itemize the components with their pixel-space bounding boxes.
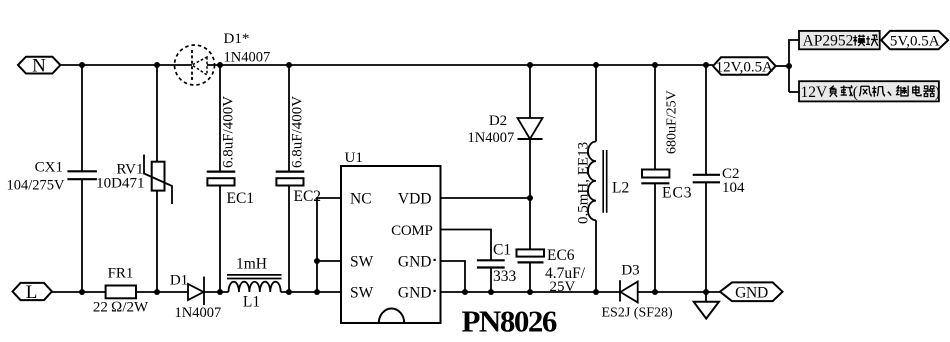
svg-text:1mH: 1mH <box>236 255 267 272</box>
svg-text:EC6: EC6 <box>547 247 575 264</box>
svg-text:EC3: EC3 <box>662 185 693 202</box>
svg-text:): ) <box>935 84 940 101</box>
svg-text:0.5mH, EE13: 0.5mH, EE13 <box>576 142 592 224</box>
junction at VDD/D2 node <box>527 195 533 201</box>
svg-text:L2: L2 <box>612 180 629 197</box>
capacitor EC1 <box>207 65 254 292</box>
wire bottom rail: L1 to chip U1 (SW pin) <box>281 291 341 293</box>
node GND <box>720 282 783 301</box>
load module AP2952 <box>799 31 880 50</box>
svg-text:C1: C1 <box>493 242 511 259</box>
wire bottom rail: L to FR1 <box>52 291 106 293</box>
diode D2 <box>468 65 543 198</box>
inductor L1 <box>227 255 282 310</box>
load box 12V (fan, relay) <box>799 81 940 101</box>
svg-text:FR1: FR1 <box>108 266 134 282</box>
wire 12V node to branch point <box>776 65 789 67</box>
svg-text:EC1: EC1 <box>227 190 255 207</box>
svg-text:25V: 25V <box>550 279 576 295</box>
svg-text:22 Ω/2W: 22 Ω/2W <box>93 300 149 316</box>
node 5V,0.5A <box>881 31 948 49</box>
svg-text:GND: GND <box>398 254 432 271</box>
junction on bottom rail at GND loop <box>462 289 468 295</box>
svg-text:D1: D1 <box>170 273 188 289</box>
junction on bottom rail at CX1 <box>79 289 85 295</box>
wire branch to AP2952 module <box>789 40 799 92</box>
svg-text:VDD: VDD <box>398 191 432 208</box>
junction on bottom rail at EC2/L1 <box>286 289 292 295</box>
varistor RV1 <box>96 65 172 292</box>
wire COMP pin to C1 <box>441 230 492 261</box>
svg-text:1N4007: 1N4007 <box>468 130 515 146</box>
svg-text:333: 333 <box>493 268 517 285</box>
svg-text:1N4007: 1N4007 <box>175 305 222 321</box>
junction on bottom rail at C1 <box>488 289 494 295</box>
svg-text:SW: SW <box>350 254 374 271</box>
diode D1 <box>170 273 221 322</box>
junction at SW pin loop <box>314 258 320 264</box>
capacitor EC2 <box>276 65 321 292</box>
wire top rail left (N to D1* cathode) <box>60 64 192 66</box>
capacitor CX1 <box>7 65 97 292</box>
junction on top rail at RV1 <box>154 62 160 68</box>
svg-text:680uF/25V: 680uF/25V <box>665 90 680 154</box>
junction on bottom rail at C2/ground <box>703 289 709 295</box>
svg-text:6.8uF/400V: 6.8uF/400V <box>290 96 306 168</box>
svg-text:104/275V: 104/275V <box>7 177 66 193</box>
diode D1* (dashed optional diode in circle) <box>175 31 271 85</box>
junction on bottom rail at NC loop <box>314 289 320 295</box>
svg-text:D2: D2 <box>489 113 507 129</box>
wire NC pin loop to bottom rail <box>317 198 341 292</box>
junction on bottom rail at L2 <box>593 289 599 295</box>
svg-text:U1: U1 <box>345 150 363 166</box>
junction at 12V branch <box>786 63 792 69</box>
junction on top rail at EC2 <box>286 62 292 68</box>
junction on top rail at CX1 <box>79 62 85 68</box>
svg-text:AP2952: AP2952 <box>803 33 854 50</box>
inductor L2 (EE13) <box>576 65 630 292</box>
junction on bottom rail at EC6 <box>527 289 533 295</box>
svg-text:L1: L1 <box>243 293 260 310</box>
ground <box>694 292 719 319</box>
svg-text:CX1: CX1 <box>35 159 63 175</box>
junction on top rail at C2 <box>703 62 709 68</box>
svg-text:(: ( <box>853 84 858 101</box>
svg-text:1N4007: 1N4007 <box>224 50 271 66</box>
svg-text:NC: NC <box>350 191 372 208</box>
svg-text:N: N <box>32 56 46 77</box>
node L <box>13 282 52 303</box>
svg-text:D1*: D1* <box>224 31 250 47</box>
wire bottom rail: D1 bar to L1 <box>204 291 229 293</box>
capacitor C1 <box>477 242 517 292</box>
svg-text:GND: GND <box>735 285 768 302</box>
junction on top rail at D2 <box>527 62 533 68</box>
junction on bottom rail at RV1 <box>154 289 160 295</box>
svg-text:D3: D3 <box>621 263 639 279</box>
resistor FR1 <box>93 266 149 316</box>
svg-text:5V,0.5A: 5V,0.5A <box>890 33 940 49</box>
svg-text:GND: GND <box>398 285 432 302</box>
capacitor EC6 <box>517 198 586 295</box>
junction on top rail at EC1 <box>217 62 223 68</box>
svg-text:COMP: COMP <box>391 223 432 239</box>
pin mark dot after upper GND label <box>434 259 436 261</box>
op-amp U1 (PN8026 controller IC) <box>341 150 441 323</box>
junction on bottom rail at EC1/D1 <box>217 289 223 295</box>
pin mark dot after lower GND label <box>434 290 436 292</box>
wire bottom rail: FR1 to D1 <box>136 291 188 293</box>
wire GND upper pin loop to bottom rail <box>441 261 466 292</box>
diode D3 <box>602 263 674 321</box>
svg-text:12V: 12V <box>801 84 829 101</box>
svg-text:SW: SW <box>350 285 374 302</box>
wire VDD pin to D2/EC6 node <box>441 197 531 199</box>
capacitor C2 <box>693 65 745 292</box>
wire top rail right (D1* to 12V node) <box>207 64 713 66</box>
wire bottom rail: chip U1 (GND pin) to D3 <box>441 291 621 293</box>
svg-text:6.8uF/400V: 6.8uF/400V <box>221 96 237 168</box>
capacitor EC3 <box>641 65 692 292</box>
svg-text:ES2J (SF28): ES2J (SF28) <box>602 306 674 321</box>
wire branch to 12V load <box>789 91 799 93</box>
junction on bottom rail at EC3 <box>652 289 658 295</box>
svg-text:PN8026: PN8026 <box>462 304 557 339</box>
svg-text:10D471: 10D471 <box>96 176 144 192</box>
junction on top rail at EC3 <box>652 62 658 68</box>
wire bottom rail: D3 to GND node <box>638 291 720 293</box>
svg-text:L: L <box>26 282 38 303</box>
svg-text:12V,0.5A: 12V,0.5A <box>716 59 773 75</box>
junction on top rail at L2 <box>593 62 599 68</box>
node N <box>18 56 60 77</box>
node 12V,0.5A <box>713 57 776 75</box>
wire SW upper pin stub <box>317 260 341 262</box>
svg-text:104: 104 <box>722 180 745 196</box>
